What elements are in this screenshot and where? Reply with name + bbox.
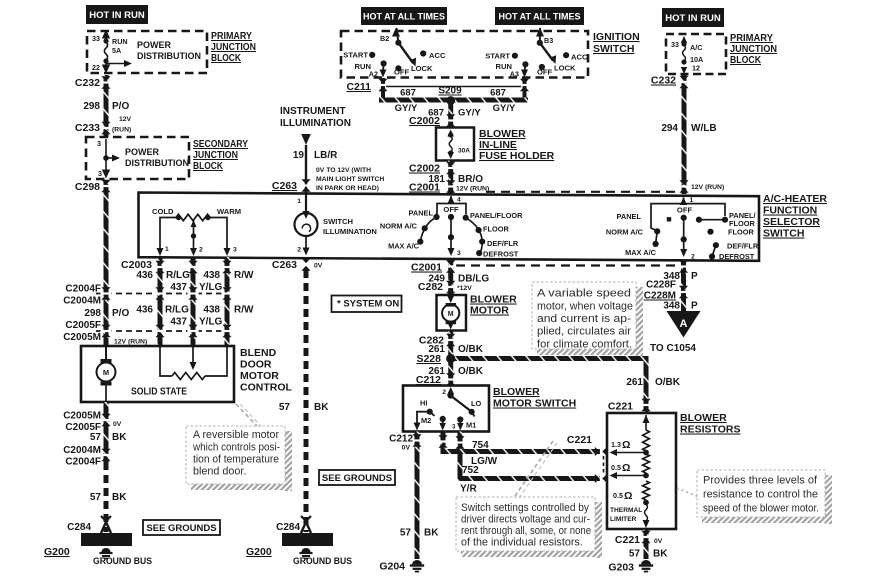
- svg-text:LO: LO: [471, 399, 482, 408]
- svg-text:12V: 12V: [119, 116, 132, 123]
- svg-text:C2001: C2001: [411, 262, 442, 274]
- svg-text:resistance to control the: resistance to control the: [703, 489, 818, 501]
- svg-text:SWITCH: SWITCH: [593, 43, 634, 55]
- svg-text:0V: 0V: [654, 538, 663, 545]
- svg-text:A3: A3: [510, 70, 519, 79]
- svg-text:OFF: OFF: [677, 206, 693, 215]
- svg-text:GY/Y: GY/Y: [395, 103, 418, 114]
- svg-text:BLOCK: BLOCK: [193, 161, 224, 172]
- svg-text:C228F: C228F: [646, 280, 676, 291]
- svg-text:O/BK: O/BK: [655, 377, 681, 388]
- svg-text:348: 348: [663, 301, 680, 312]
- svg-text:START: START: [485, 52, 510, 61]
- svg-text:C298: C298: [75, 181, 100, 193]
- svg-text:JUNCTION: JUNCTION: [211, 42, 256, 53]
- svg-text:DEFROST: DEFROST: [719, 252, 755, 261]
- svg-text:C284: C284: [67, 522, 91, 533]
- svg-text:437: 437: [170, 317, 187, 328]
- svg-text:1.3: 1.3: [611, 440, 621, 449]
- svg-text:PANEL: PANEL: [617, 212, 642, 221]
- svg-text:FLOOR: FLOOR: [728, 228, 755, 237]
- svg-text:C2005M: C2005M: [63, 411, 101, 422]
- svg-text:57: 57: [629, 549, 641, 560]
- svg-text:(RUN): (RUN): [112, 127, 131, 134]
- svg-text:4: 4: [457, 197, 461, 204]
- svg-text:A2: A2: [369, 70, 378, 79]
- svg-text:ACC: ACC: [429, 51, 446, 60]
- svg-text:plied, circulates air: plied, circulates air: [537, 326, 631, 338]
- svg-text:DOOR: DOOR: [240, 359, 272, 371]
- svg-text:ACC: ACC: [571, 53, 588, 62]
- svg-text:P/O: P/O: [112, 101, 129, 112]
- svg-text:JUNCTION: JUNCTION: [730, 44, 777, 55]
- svg-text:SWITCH: SWITCH: [323, 217, 353, 226]
- svg-text:BR/O: BR/O: [458, 174, 483, 185]
- svg-text:1: 1: [297, 198, 301, 205]
- svg-text:ILLUMINATION: ILLUMINATION: [323, 227, 377, 236]
- svg-text:Switch settings controlled by: Switch settings controlled by: [461, 502, 590, 514]
- svg-text:LOCK: LOCK: [554, 64, 576, 73]
- svg-text:BLOWER: BLOWER: [680, 412, 727, 424]
- svg-text:tion of temperature: tion of temperature: [193, 454, 279, 466]
- svg-text:HOT AT ALL TIMES: HOT AT ALL TIMES: [499, 12, 581, 22]
- svg-text:THERMAL: THERMAL: [610, 507, 642, 514]
- svg-text:motor, when voltage: motor, when voltage: [537, 301, 633, 313]
- svg-text:19: 19: [293, 150, 305, 161]
- svg-text:ILLUMINATION: ILLUMINATION: [280, 118, 351, 129]
- svg-text:S209: S209: [438, 86, 462, 97]
- svg-text:DEF/FLR: DEF/FLR: [727, 242, 759, 251]
- svg-text:C2004M: C2004M: [63, 296, 101, 307]
- svg-text:SWITCH: SWITCH: [763, 228, 804, 240]
- svg-text:C284: C284: [276, 522, 300, 533]
- svg-text:HOT IN RUN: HOT IN RUN: [665, 13, 721, 24]
- svg-text:0.5: 0.5: [613, 491, 623, 500]
- svg-text:B3: B3: [544, 36, 553, 45]
- svg-text:BLOWER: BLOWER: [493, 386, 540, 398]
- svg-text:driver directs voltage and cur: driver directs voltage and cur-: [461, 514, 590, 526]
- svg-text:OFF: OFF: [394, 68, 410, 77]
- svg-text:2: 2: [297, 247, 301, 254]
- svg-text:12: 12: [692, 64, 700, 73]
- svg-text:DB/LG: DB/LG: [458, 274, 489, 285]
- svg-text:P: P: [691, 301, 698, 312]
- svg-text:LIMITER: LIMITER: [610, 516, 637, 523]
- svg-text:POWER: POWER: [125, 147, 160, 157]
- svg-text:436: 436: [136, 305, 153, 316]
- svg-text:R/W: R/W: [234, 305, 254, 316]
- svg-text:*12V: *12V: [457, 285, 472, 292]
- svg-text:57: 57: [90, 492, 102, 503]
- svg-text:BK: BK: [424, 528, 439, 539]
- svg-text:INSTRUMENT: INSTRUMENT: [280, 106, 346, 117]
- svg-text:33: 33: [671, 40, 679, 49]
- svg-text:NORM A/C: NORM A/C: [380, 222, 418, 231]
- svg-text:1: 1: [165, 246, 169, 253]
- svg-text:POWER: POWER: [137, 40, 172, 50]
- svg-text:GROUND BUS: GROUND BUS: [293, 556, 352, 567]
- svg-text:261: 261: [626, 377, 643, 388]
- svg-text:SELECTOR: SELECTOR: [763, 216, 820, 228]
- svg-text:BLOCK: BLOCK: [730, 55, 762, 66]
- svg-text:22: 22: [92, 63, 100, 72]
- svg-text:M1: M1: [466, 421, 476, 430]
- svg-text:12V (RUN): 12V (RUN): [114, 339, 147, 346]
- svg-text:BLEND: BLEND: [240, 347, 277, 359]
- svg-text:C2005M: C2005M: [63, 332, 101, 343]
- svg-text:blend door.: blend door.: [193, 466, 246, 478]
- svg-text:R/W: R/W: [234, 270, 254, 281]
- svg-text:CONTROL: CONTROL: [240, 382, 292, 394]
- svg-text:Provides three levels of: Provides three levels of: [703, 475, 818, 487]
- svg-text:BK: BK: [314, 402, 329, 413]
- svg-text:C232: C232: [651, 75, 676, 87]
- svg-text:speed of the blower motor.: speed of the blower motor.: [703, 503, 819, 515]
- svg-text:A/C: A/C: [690, 43, 702, 52]
- svg-text:12V (RUN): 12V (RUN): [456, 186, 489, 193]
- svg-text:PRIMARY: PRIMARY: [730, 33, 773, 44]
- svg-text:MAX A/C: MAX A/C: [388, 242, 420, 251]
- svg-text:SEE GROUNDS: SEE GROUNDS: [322, 473, 392, 484]
- svg-text:* SYSTEM ON: * SYSTEM ON: [337, 299, 399, 310]
- svg-text:FUNCTION: FUNCTION: [763, 205, 817, 217]
- svg-text:57: 57: [279, 402, 291, 413]
- svg-text:C2004F: C2004F: [65, 284, 101, 295]
- svg-text:and current is ap-: and current is ap-: [537, 313, 631, 325]
- svg-text:P: P: [691, 271, 698, 282]
- svg-text:C221: C221: [608, 401, 633, 413]
- svg-text:C263: C263: [272, 259, 297, 271]
- svg-text:Ω: Ω: [624, 490, 632, 502]
- svg-text:MAX A/C: MAX A/C: [625, 248, 657, 257]
- svg-text:C2002: C2002: [409, 115, 440, 127]
- svg-text:BK: BK: [653, 549, 668, 560]
- svg-text:3: 3: [457, 250, 461, 257]
- svg-text:for climate comfort.: for climate comfort.: [537, 339, 632, 351]
- svg-text:C2001: C2001: [409, 182, 440, 194]
- svg-text:C221: C221: [615, 534, 640, 546]
- svg-text:2: 2: [691, 254, 695, 261]
- svg-text:LB/R: LB/R: [314, 150, 338, 161]
- svg-text:START: START: [343, 51, 368, 60]
- svg-text:C233: C233: [75, 122, 100, 134]
- svg-text:A reversible motor: A reversible motor: [193, 429, 279, 441]
- svg-text:2: 2: [199, 247, 203, 254]
- svg-text:Ω: Ω: [622, 462, 630, 474]
- svg-text:C2005F: C2005F: [65, 320, 101, 331]
- svg-text:MOTOR SWITCH: MOTOR SWITCH: [493, 398, 576, 410]
- svg-text:DEFROST: DEFROST: [483, 250, 519, 259]
- svg-text:BLOCK: BLOCK: [211, 53, 242, 64]
- svg-text:HI: HI: [420, 399, 427, 408]
- svg-text:687: 687: [490, 88, 506, 99]
- svg-text:G200: G200: [44, 546, 70, 558]
- svg-text:of the individual resistors.: of the individual resistors.: [461, 537, 583, 549]
- svg-text:33: 33: [92, 34, 100, 43]
- svg-text:P/O: P/O: [112, 308, 129, 319]
- svg-text:298: 298: [83, 101, 100, 112]
- svg-text:2: 2: [442, 389, 446, 396]
- svg-text:C263: C263: [272, 180, 297, 192]
- svg-text:C2004F: C2004F: [65, 457, 101, 468]
- svg-text:IN PARK OR HEAD): IN PARK OR HEAD): [316, 185, 379, 192]
- svg-text:57: 57: [400, 528, 412, 539]
- svg-text:which controls posi-: which controls posi-: [192, 442, 280, 454]
- svg-text:C2004M: C2004M: [63, 445, 101, 456]
- svg-text:3: 3: [233, 247, 237, 254]
- svg-text:NORM A/C: NORM A/C: [606, 228, 644, 237]
- svg-text:O/BK: O/BK: [458, 366, 484, 377]
- svg-text:W/LB: W/LB: [691, 123, 717, 134]
- svg-text:C2002: C2002: [409, 163, 440, 175]
- svg-text:DISTRIBUTION: DISTRIBUTION: [125, 158, 189, 168]
- svg-text:A/C-HEATER: A/C-HEATER: [763, 193, 827, 205]
- svg-text:MOTOR: MOTOR: [470, 305, 509, 317]
- svg-text:0V TO 12V (WITH: 0V TO 12V (WITH: [316, 167, 371, 174]
- svg-text:RESISTORS: RESISTORS: [680, 424, 741, 436]
- svg-text:RUN: RUN: [112, 37, 128, 46]
- svg-text:438: 438: [203, 305, 220, 316]
- svg-text:SECONDARY: SECONDARY: [193, 139, 248, 150]
- svg-text:C221: C221: [567, 434, 592, 446]
- svg-text:752: 752: [462, 465, 479, 476]
- svg-text:HOT AT ALL TIMES: HOT AT ALL TIMES: [363, 12, 445, 22]
- svg-text:M: M: [448, 311, 454, 318]
- svg-text:3: 3: [97, 139, 101, 148]
- svg-text:A variable speed: A variable speed: [537, 288, 631, 300]
- svg-text:JUNCTION: JUNCTION: [193, 150, 238, 161]
- svg-text:687: 687: [400, 88, 416, 99]
- svg-text:B2: B2: [380, 34, 389, 43]
- svg-text:DEF/FLR: DEF/FLR: [487, 239, 519, 248]
- svg-text:0V: 0V: [314, 263, 323, 270]
- svg-text:0.5: 0.5: [611, 463, 621, 472]
- svg-text:C212: C212: [389, 434, 413, 445]
- svg-text:12V (RUN): 12V (RUN): [691, 184, 724, 191]
- svg-text:GY/Y: GY/Y: [458, 108, 481, 119]
- svg-text:0V: 0V: [113, 421, 122, 428]
- svg-text:rent through all, some, or non: rent through all, some, or none: [461, 525, 591, 537]
- svg-text:G204: G204: [379, 561, 405, 573]
- svg-text:BK: BK: [112, 492, 127, 503]
- svg-text:M2: M2: [421, 416, 431, 425]
- svg-text:FUSE HOLDER: FUSE HOLDER: [479, 150, 555, 162]
- svg-text:30A: 30A: [458, 148, 470, 155]
- svg-text:HOT IN RUN: HOT IN RUN: [89, 10, 145, 21]
- svg-text:PANEL: PANEL: [409, 209, 434, 218]
- svg-text:DISTRIBUTION: DISTRIBUTION: [137, 51, 201, 61]
- svg-text:TO C1054: TO C1054: [650, 343, 696, 354]
- svg-text:0V: 0V: [402, 445, 411, 452]
- svg-text:C211: C211: [346, 81, 371, 93]
- svg-text:O/BK: O/BK: [458, 344, 484, 355]
- svg-text:Y/LG: Y/LG: [199, 282, 223, 293]
- svg-text:3: 3: [452, 424, 456, 431]
- svg-text:G203: G203: [608, 562, 634, 574]
- svg-text:MOTOR: MOTOR: [240, 370, 279, 382]
- svg-text:57: 57: [90, 432, 102, 443]
- svg-text:MAIN LIGHT SWITCH: MAIN LIGHT SWITCH: [316, 176, 384, 183]
- svg-text:IGNITION: IGNITION: [593, 31, 640, 43]
- svg-text:C232: C232: [75, 77, 100, 89]
- svg-text:M: M: [103, 368, 109, 377]
- svg-text:PRIMARY: PRIMARY: [211, 31, 252, 42]
- svg-text:Ω: Ω: [622, 439, 630, 451]
- svg-text:A: A: [680, 318, 688, 330]
- svg-text:GY/Y: GY/Y: [493, 103, 516, 114]
- svg-text:298: 298: [84, 308, 101, 319]
- svg-text:GROUND BUS: GROUND BUS: [93, 556, 152, 567]
- svg-text:754: 754: [472, 440, 489, 451]
- svg-text:437: 437: [170, 282, 187, 293]
- svg-text:Y/LG: Y/LG: [199, 317, 223, 328]
- svg-text:3: 3: [98, 169, 102, 178]
- svg-text:FLOOR: FLOOR: [483, 225, 510, 234]
- svg-text:PANEL/FLOOR: PANEL/FLOOR: [470, 211, 523, 220]
- svg-text:SOLID STATE: SOLID STATE: [131, 386, 187, 398]
- svg-text:294: 294: [661, 123, 678, 134]
- svg-text:438: 438: [203, 270, 220, 281]
- svg-text:G200: G200: [246, 546, 272, 558]
- svg-text:C282: C282: [418, 281, 443, 293]
- svg-text:R/LG: R/LG: [166, 270, 190, 281]
- svg-text:COLD: COLD: [152, 207, 174, 216]
- svg-text:Y/R: Y/R: [460, 484, 477, 495]
- svg-text:R/LG: R/LG: [165, 305, 189, 316]
- svg-text:LOCK: LOCK: [411, 64, 433, 73]
- svg-text:OFF: OFF: [443, 205, 459, 214]
- svg-text:S228: S228: [416, 353, 441, 365]
- svg-text:5A: 5A: [112, 46, 121, 55]
- svg-text:OFF: OFF: [537, 68, 553, 77]
- svg-text:SEE GROUNDS: SEE GROUNDS: [146, 523, 216, 534]
- svg-text:WARM: WARM: [217, 207, 241, 216]
- svg-text:BK: BK: [112, 432, 127, 443]
- svg-text:436: 436: [136, 270, 153, 281]
